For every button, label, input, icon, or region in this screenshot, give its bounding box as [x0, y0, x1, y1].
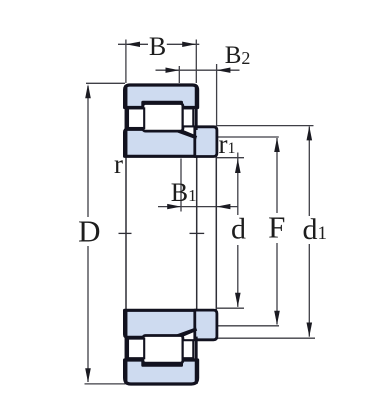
- thrust collar top section: [195, 127, 217, 157]
- dimension B2 extension lines: [179, 64, 216, 126]
- cage pocket bottom left: [128, 339, 144, 359]
- dimension B2 line: [156, 69, 240, 71]
- outer ring bottom section: [125, 360, 198, 384]
- dimension F line: [276, 138, 278, 325]
- dimension d1 arrows: [307, 126, 313, 337]
- svg-text:B: B: [149, 32, 166, 61]
- inner ring top section: [125, 129, 197, 156]
- center tick right: [190, 232, 205, 234]
- dimension B1 arrows: [167, 204, 230, 209]
- cage pocket bottom right: [183, 340, 194, 358]
- svg-text:d: d: [231, 213, 246, 246]
- right face bottom: [195, 337, 198, 384]
- dimension d1 extension lines: [216, 126, 315, 339]
- dimension D arrows: [85, 84, 91, 382]
- thrust collar bottom section: [195, 310, 217, 340]
- left face bottom: [125, 309, 128, 384]
- svg-text:r: r: [114, 149, 123, 179]
- dimension B arrows: [126, 42, 196, 47]
- dimension F extension lines: [217, 137, 279, 326]
- dimension d arrows: [235, 159, 241, 307]
- dimension F arrows: [274, 138, 280, 325]
- right face top: [195, 85, 198, 130]
- roller top: [143, 104, 183, 132]
- dimension B1 extension line: [180, 159, 182, 212]
- dimension B line: [118, 43, 199, 45]
- roller bottom: [143, 336, 183, 364]
- face extension line left (between sections): [125, 158, 127, 310]
- svg-text:D: D: [78, 214, 100, 249]
- dimension B extension lines: [126, 40, 196, 84]
- center tick left: [119, 232, 132, 234]
- dimension B1 line: [158, 206, 238, 208]
- dimension D line: [85, 83, 126, 384]
- dimension B2 arrows: [166, 68, 231, 73]
- left face top: [125, 85, 128, 158]
- cage pocket top right: [183, 108, 194, 126]
- outer ring top section: [125, 85, 198, 108]
- svg-text:F: F: [268, 209, 285, 244]
- collar slope bottom: [177, 329, 196, 336]
- dimension d extension lines: [217, 158, 244, 309]
- cage pocket top left: [128, 108, 144, 128]
- face extension line right (between sections): [196, 158, 198, 310]
- dimension d1 line: [308, 126, 310, 336]
- inner ring bottom section: [125, 310, 197, 337]
- collar slope top: [177, 131, 196, 138]
- collar edge extension line (between sections): [215, 157, 217, 311]
- dimension d line: [237, 153, 239, 307]
